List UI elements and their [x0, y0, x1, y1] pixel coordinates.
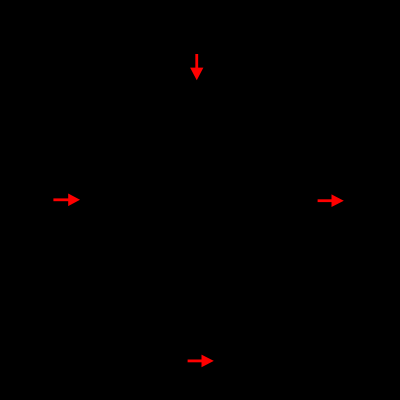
- battery V1: [66, 188, 94, 212]
- resistor R2: [309, 160, 325, 234]
- wire middle branch: [196, 80, 198, 361]
- wire bottom: [80, 360, 317, 362]
- node B: [195, 359, 200, 364]
- current arrow I1 (down, top branch): [190, 54, 203, 80]
- wire left: [79, 80, 81, 361]
- current arrow I3 (right, out of right side): [318, 194, 344, 207]
- current arrow I4 (right, along bottom wire): [188, 355, 214, 368]
- node A: [195, 78, 200, 83]
- current arrow I2 (right, into left side): [53, 194, 80, 207]
- wire top: [80, 79, 317, 81]
- wire right: [316, 80, 318, 361]
- resistor R1: [160, 72, 234, 88]
